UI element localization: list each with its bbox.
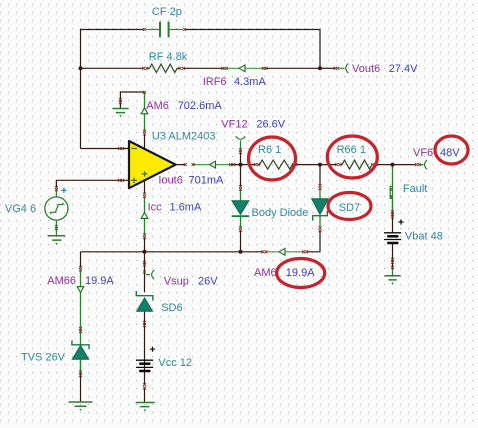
wire bus corner L down AM66 [80,252,82,267]
svg-text:Icc: Icc [148,202,163,214]
wire Fault switch to Vbat [392,200,394,233]
wire opamp bottom pin to Icc [144,180,146,193]
pin marks Body Diode top [239,185,242,191]
svg-text:27.4V: 27.4V [389,63,418,75]
diode TVS triangle [72,345,88,359]
pin marks Vsup [143,261,146,274]
battery Vcc plus polarity [150,347,155,352]
diode SD6 schottky cathode bar [136,291,153,300]
battery Vcc plates [136,360,153,371]
svg-text:RF 4.8k: RF 4.8k [149,51,188,63]
pin marks Vcc [143,383,146,389]
pin marks SD7 bottom [319,227,322,233]
pin marks VF6 [415,163,421,166]
junction node F [318,163,322,167]
pin marks opamp output [184,163,236,166]
diode TVS lead bottom [80,359,82,371]
voltage pin Vout6 [340,64,349,73]
wire SD6 column below vsup pin [144,252,146,403]
wire R66 node to VF6 stub [393,164,416,166]
svg-text:AM66: AM66 [47,275,76,287]
pin marks AM6 ground stub [119,98,122,104]
ammeter AM66 lead green [80,271,82,345]
wire Vout stub from node D [320,67,335,69]
junction node D [318,66,322,70]
capacitor CF plates [160,22,169,37]
svg-text:19.9A: 19.9A [286,267,315,279]
wire bus AM6 green segment [267,251,304,253]
pin marks TVS bottom [79,371,82,377]
wire IRF6 green segment [224,67,265,69]
ground VG4 [48,236,66,240]
wire R6 node to R66 [320,164,393,166]
wire Icc green segment [144,197,146,235]
junction node H [391,163,395,167]
wire output node to R6 [241,164,321,166]
pin marks AM66 [79,266,82,333]
junction node I [143,250,147,254]
diode SD7 triangle [312,199,329,215]
svg-text:Fault: Fault [403,183,427,195]
pin marks RF [142,67,185,70]
svg-text:48V: 48V [440,147,460,159]
wire top-right vertical x=320 (B to D) [319,29,321,68]
ground Vbat [384,276,400,280]
svg-text:Vcc 12: Vcc 12 [158,357,192,369]
svg-text:Vbat 48: Vbat 48 [405,231,443,243]
ground TVS [69,402,93,406]
wire Vbat to ground [392,243,394,270]
junction node C [79,66,83,70]
pin marks Vbat bottom [391,258,394,269]
wire SD7 to bus corner K [319,232,321,252]
switch Fault contacts [391,188,394,192]
pin marks AM6 [143,91,146,136]
pin marks Icc [143,193,146,240]
pin marks VG4 [55,186,58,230]
current arrow IRF6 [239,65,245,72]
battery Vbat plates [384,233,401,243]
ground Vcc [136,403,155,407]
battery Vbat plus polarity [398,219,403,224]
capacitor CF leads [146,29,183,31]
resistor R66 zigzag [341,160,373,169]
wire plus input row y=180.3 [56,180,128,187]
svg-text:VG4 6: VG4 6 [5,203,36,215]
ammeter AM6 lead green [144,93,146,131]
junction node G [239,163,243,167]
svg-text:19.9A: 19.9A [85,275,114,287]
pin marks SD7 top [319,184,322,190]
source VG4 plus polarity [61,188,66,193]
wire node H down to Fault switch [392,165,394,168]
wire bus row y=251.8 [81,251,321,253]
current arrow Icc up [141,212,148,218]
current arrow AM6 up [141,108,148,114]
diode SD7 schottky cathode bar [313,211,328,221]
highlight ellipse AM6 19.9A [277,259,325,288]
svg-text:4.3mA: 4.3mA [234,76,266,88]
svg-text:TVS 26V: TVS 26V [21,351,66,363]
svg-text:SD6: SD6 [161,302,182,314]
op-amp plus symbol [131,171,147,183]
diode Body Diode lead top [240,190,242,202]
svg-text:Vout6: Vout6 [352,63,380,75]
svg-text:CF 2p: CF 2p [152,6,182,18]
diode Body Diode lead bottom [240,216,242,227]
wire node G down to body diode [240,165,242,186]
highlight ellipse R6 [249,137,296,180]
voltage pin Vsup [146,270,154,279]
svg-text:SD7: SD7 [339,202,360,214]
junction node J [239,250,243,254]
svg-text:701mA: 701mA [189,174,225,186]
highlight ellipse 48V [435,136,468,164]
diode SD7 lead top [319,189,321,200]
pin marks SD6 bottom [143,321,146,327]
wire RF row horizontal y=68.3 [81,67,321,69]
voltage pin VF12 [236,136,246,153]
svg-text:1.6mA: 1.6mA [170,202,202,214]
wire Iout6 green segment [195,164,232,166]
wire node F down to SD7 [319,165,321,185]
svg-text:26V: 26V [198,275,218,287]
svg-text:R6 1: R6 1 [258,144,281,156]
svg-text:AM6: AM6 [146,100,169,112]
current arrow AM66 down [77,287,84,293]
highlight ellipse SD7 [328,193,371,220]
current arrow Iout6 [210,161,216,168]
pin marks Vbat top [391,210,394,218]
pin marks R66 [335,163,377,166]
svg-text:26.6V: 26.6V [256,119,285,131]
svg-text:VF6: VF6 [413,147,433,159]
switch Fault green wire [392,167,394,211]
diode TVS zener bar [72,341,89,349]
pin marks opamp inputs [118,147,124,182]
wire top feedback horizontal y=29.5 [81,29,321,31]
diode Body Diode triangle [232,201,249,215]
op-amp minus symbol [131,148,137,150]
pin marks AM6 bus [261,250,308,253]
diode SD6 triangle [137,298,153,311]
svg-text:Body Diode: Body Diode [252,207,309,219]
ground for AM6 supply [113,109,129,113]
wire minus input stub y=148.5 [81,148,129,150]
pin marks VF12 [239,148,242,154]
wire Icc to bus node I [144,238,146,252]
wire left vertical x=80.5 (A to E) [80,29,82,149]
resistor RF zigzag [147,64,181,72]
pin marks CF [143,28,186,31]
svg-text:Iout6: Iout6 [158,174,182,186]
diode SD7 lead bottom [319,216,321,227]
wire opamp top power elbow [120,92,144,149]
wire body diode to bus [240,231,242,252]
highlight ellipse R66 [327,136,377,178]
pin marks R6 [254,163,298,166]
pin marks IRF6 arrow [221,67,267,70]
source VG4 leads [55,191,57,236]
wire opamp output stub [176,164,241,166]
wire VF12 stub vertical x=240.5 [240,153,242,165]
svg-text:702.6mA: 702.6mA [178,100,223,112]
svg-text:VF12: VF12 [221,119,247,131]
svg-text:Vsup: Vsup [164,275,189,287]
pin marks Body Diode bottom [239,226,242,232]
diode Body Diode cathode bar [232,215,250,217]
source VG4 step waveform [51,203,63,215]
voltage pin VF6 [420,160,428,169]
svg-text:U3 ALM2403: U3 ALM2403 [152,130,216,142]
current arrow AM6 bus left [279,248,285,255]
pin marks Vout6 [334,67,340,70]
svg-text:R66 1: R66 1 [337,144,366,156]
switch Fault bracket [390,186,392,198]
svg-text:IRF6: IRF6 [203,76,227,88]
wire AM66 column dark segment TVS to ground [80,359,82,402]
svg-text:AM6: AM6 [254,267,277,279]
source VG4 circle [45,197,68,220]
op-amp U3 body [129,141,176,188]
battery Vbat ground lead [392,269,394,276]
resistor R6 zigzag [259,160,294,169]
